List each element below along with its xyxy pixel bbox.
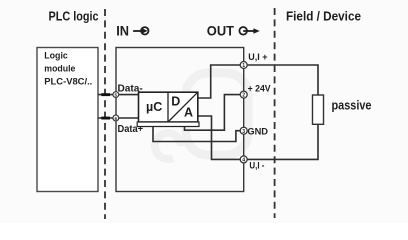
svg-text:passive: passive — [332, 98, 372, 113]
svg-text:D: D — [171, 94, 180, 108]
resistor passive load — [313, 95, 324, 124]
svg-text:PLC logic: PLC logic — [49, 9, 99, 24]
wire GND : module bottom to terminal 3 — [153, 126, 244, 142]
wire U,I+ : DAC output to terminal 1 — [198, 65, 244, 98]
svg-text:PLC-V8C/..: PLC-V8C/.. — [44, 77, 92, 87]
svg-text:module: module — [44, 64, 75, 74]
svg-text:6: 6 — [115, 116, 118, 121]
wire passive device top: terminal 1 to resistor — [244, 65, 318, 95]
microcontroller / DAC block U1 — [137, 92, 199, 126]
logic module box — [37, 48, 98, 192]
isolator main box — [116, 48, 244, 192]
svg-text:U,I -: U,I - — [249, 160, 264, 170]
svg-text:Field / Device: Field / Device — [286, 8, 361, 23]
OUT port symbol — [239, 27, 259, 35]
svg-text:3: 3 — [242, 129, 245, 135]
svg-text:Logic: Logic — [44, 50, 68, 60]
wire Data- from logic module to microcontroller — [98, 94, 139, 96]
svg-text:µC: µC — [146, 100, 162, 114]
terminal 1 U,I+ — [240, 62, 247, 70]
connector bar on Data+ wire — [101, 117, 110, 120]
svg-text:5: 5 — [115, 92, 118, 97]
svg-text:2: 2 — [242, 93, 245, 99]
svg-text:IN: IN — [116, 23, 129, 38]
wire passive device bottom: resistor to terminal 4 — [244, 124, 318, 159]
wire +24V : module bottom to terminal 2 — [185, 95, 244, 131]
terminal 5 Data- — [113, 92, 119, 98]
zone separator dashed line OUT / Field-Device — [274, 8, 276, 218]
svg-text:GND: GND — [247, 126, 268, 136]
svg-text:4: 4 — [242, 158, 245, 164]
svg-text:OUT: OUT — [207, 23, 235, 38]
terminal 6 Data+ — [113, 115, 119, 121]
connector bar on Data- wire — [101, 93, 110, 96]
svg-text:A: A — [184, 106, 193, 120]
svg-text:1: 1 — [242, 63, 245, 69]
terminal 2 +24V — [240, 91, 247, 99]
wire Data+ from logic module to microcontroller — [98, 117, 139, 119]
terminal 3 GND — [240, 127, 247, 135]
svg-text:U,I +: U,I + — [248, 52, 268, 62]
svg-text:+ 24V: + 24V — [248, 84, 272, 94]
wire U,I- : DAC output to terminal 4 — [198, 116, 244, 159]
terminal 4 U,I- — [240, 156, 247, 164]
IN port symbol — [133, 27, 148, 34]
zone separator dashed line PLC logic / IN — [104, 9, 106, 219]
